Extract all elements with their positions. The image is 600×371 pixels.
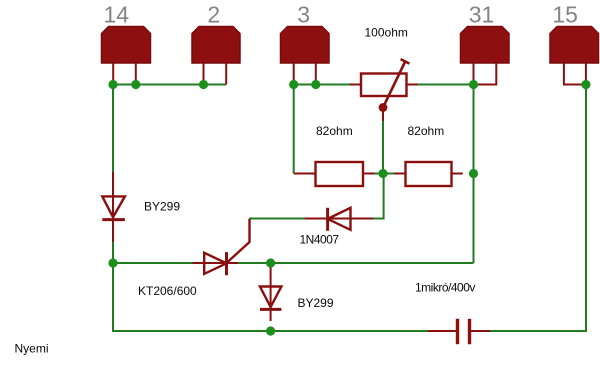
diode D2 1N4007 bbox=[305, 208, 373, 231]
svg-text:82ohm: 82ohm bbox=[408, 124, 445, 138]
wire gate of thyristor to 1N4007 bbox=[249, 218, 306, 220]
svg-text:15: 15 bbox=[552, 2, 578, 28]
svg-text:1N4007: 1N4007 bbox=[300, 233, 340, 247]
svg-text:2: 2 bbox=[207, 2, 220, 28]
junction dot pin14 left bbox=[108, 80, 117, 89]
value label 1mikro/400v bbox=[415, 280, 475, 294]
potentiometer R1 100ohm bbox=[350, 59, 418, 121]
connector J15 body bbox=[550, 27, 599, 85]
diode D1 BY299 (left vertical) bbox=[102, 172, 125, 242]
junction dot right resistor out bbox=[469, 169, 478, 178]
junction dot pin14 right bbox=[131, 80, 140, 89]
svg-text:100ohm: 100ohm bbox=[365, 25, 408, 39]
junction dot pin3 left bbox=[289, 80, 298, 89]
value label 1N4007 bbox=[300, 233, 340, 247]
wire x=293.7 vertical to left 82ohm bbox=[293, 85, 295, 174]
connector J14 body bbox=[102, 27, 151, 85]
junction dot pin3 right bbox=[311, 80, 320, 89]
label 15 bbox=[552, 2, 578, 28]
connector J3 body bbox=[281, 27, 330, 85]
wire between 82ohm resistors bbox=[374, 173, 395, 175]
junction dot pin15 bbox=[581, 80, 590, 89]
resistor R2 82ohm (left) bbox=[294, 162, 375, 186]
svg-text:BY299: BY299 bbox=[298, 296, 334, 310]
label 31 bbox=[469, 2, 495, 28]
value label 82ohm right bbox=[408, 124, 445, 138]
label 3 bbox=[297, 2, 310, 28]
junction dot bottom bus bbox=[266, 326, 275, 335]
junction dot pin31 bbox=[469, 80, 478, 89]
value label KT206/600 bbox=[138, 284, 197, 298]
svg-text:31: 31 bbox=[469, 2, 495, 28]
svg-text:3: 3 bbox=[297, 2, 310, 28]
wire net top-left (pins 14/2) bbox=[113, 84, 226, 86]
wire bottom right of capacitor bbox=[490, 85, 586, 332]
junction dot mid resistors bbox=[378, 169, 387, 178]
resistor R3 82ohm (right) bbox=[394, 162, 463, 186]
wire middle horizontal y=263 bbox=[113, 262, 474, 264]
connector J2 body bbox=[192, 27, 240, 85]
junction dot thyristor out y263 bbox=[266, 258, 275, 267]
connector J31 body bbox=[461, 27, 510, 85]
junction dot left bus y263 bbox=[108, 258, 117, 267]
junction dot pin2 left bbox=[199, 80, 208, 89]
wire 1N4007 to mid junction bbox=[372, 174, 384, 219]
capacitor C1 1mikro/400v bbox=[428, 319, 490, 344]
svg-text:14: 14 bbox=[104, 2, 130, 28]
note text Nyemi bbox=[15, 342, 49, 356]
wire net top-middle (pin 3 to pot) bbox=[294, 84, 352, 86]
wire net pot to pin 31 bbox=[415, 84, 474, 86]
svg-text:BY299: BY299 bbox=[144, 200, 180, 214]
wire left vertical x=113 bbox=[112, 85, 114, 264]
value label BY299 (lower) bbox=[298, 296, 334, 310]
wire right vertical x=473.5 bbox=[473, 85, 475, 264]
value label 100ohm bbox=[365, 25, 408, 39]
svg-text:Nyemi: Nyemi bbox=[15, 342, 49, 356]
wire left bottom vertical and bottom bus bbox=[113, 263, 428, 331]
svg-text:1mikró/400v: 1mikró/400v bbox=[415, 280, 475, 294]
diode D3 BY299 (lower vertical) bbox=[260, 265, 282, 321]
thyristor Q1 KT206/600 bbox=[193, 219, 250, 275]
value label BY299 (left) bbox=[144, 200, 180, 214]
value label 82ohm left bbox=[316, 124, 353, 138]
label 2 bbox=[207, 2, 220, 28]
wire pot wiper down bbox=[382, 119, 384, 174]
svg-text:82ohm: 82ohm bbox=[316, 124, 353, 138]
svg-text:KT206/600: KT206/600 bbox=[138, 284, 197, 298]
label 14 bbox=[104, 2, 130, 28]
